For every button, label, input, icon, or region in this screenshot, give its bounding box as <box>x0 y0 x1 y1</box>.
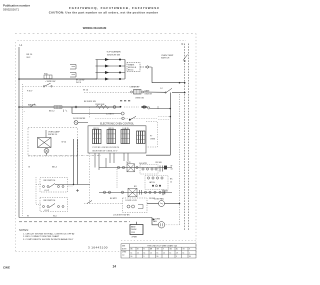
motor M2 oven fan <box>158 222 164 228</box>
wire chassis long dash <box>19 221 130 223</box>
svg-text:N: N <box>182 43 184 46</box>
svg-text:16: 16 <box>157 252 159 254</box>
title block column labels <box>131 249 191 259</box>
wire lock to fan <box>147 203 159 205</box>
svg-text:BK W R BR OR Y GN BL GY V: BK W R BR OR Y GN BL GY V <box>93 151 119 153</box>
wire dashed alternate bus vertical <box>22 84 24 216</box>
wire branch corner down <box>71 107 73 114</box>
relay K2 in EOC <box>107 128 116 144</box>
wire lead to SW1 <box>36 184 42 186</box>
wire ignitor to switch <box>84 91 131 93</box>
surface ignitor switch row 4 <box>96 78 126 81</box>
wire transformer lead <box>136 222 138 225</box>
connector block CN2 two-row <box>145 176 168 190</box>
wire lead to SW2 <box>36 204 42 206</box>
switch S3 oven <box>166 88 172 92</box>
wire SW1 to right dashed <box>68 185 74 187</box>
svg-text:V: V <box>189 249 190 251</box>
wire dotted pair right <box>158 116 170 118</box>
switch S4 on oven feed <box>30 104 35 107</box>
svg-text:P1 P2 N1 L1 N2 K1 K2 K3 P4 P: P1 P2 N1 L1 N2 K1 K2 K3 P4 P6 <box>93 147 119 149</box>
connector circle control line <box>122 117 125 120</box>
svg-text:OVEN: OVEN <box>150 139 156 141</box>
wire L1 bus vertical <box>18 47 20 218</box>
infinite switch SW2 box <box>40 198 68 213</box>
wire relay row 1 <box>99 167 172 169</box>
node junction lamp return <box>73 184 74 185</box>
connector pins bracket row1 <box>160 166 163 172</box>
switch S1 on neutral bus <box>183 55 188 61</box>
wire lamp return horizontal <box>55 184 90 186</box>
connector marks P1 <box>64 110 68 113</box>
svg-text:BL: BL <box>176 249 178 251</box>
svg-text:OVEN IGN: OVEN IGN <box>95 104 105 106</box>
svg-text:90: 90 <box>189 256 191 258</box>
svg-text:NOTE: NOTE <box>122 249 126 251</box>
transformer T1 box <box>130 225 143 235</box>
wire door lock dashed line <box>84 203 123 205</box>
heater element E2 hatched box row3 <box>128 188 137 197</box>
dark arrow mark <box>153 218 156 220</box>
resistor R1 hatched <box>54 106 62 109</box>
wire lamp return vertical 1 <box>73 139 75 185</box>
wire dashed drop from oven feed <box>89 107 91 119</box>
switch S5 control <box>131 116 137 119</box>
svg-text:1-3: 1-3 <box>122 255 124 257</box>
wire neutral bus dashed vertical <box>184 44 186 231</box>
wire dashed oven feed continues <box>124 106 139 108</box>
svg-text:14: 14 <box>170 252 172 254</box>
svg-text:+ IGNITOR: + IGNITOR <box>130 87 140 89</box>
svg-text:BK 12: BK 12 <box>49 111 55 113</box>
svg-text:14: 14 <box>163 252 165 254</box>
svg-text:14: 14 <box>144 252 146 254</box>
wire dash-dot lamp bottom <box>28 155 102 157</box>
wire right oven feed <box>150 108 170 110</box>
svg-text:18: 18 <box>176 252 178 254</box>
surface ignitor switch row 3 <box>96 71 126 74</box>
svg-text:XFMR: XFMR <box>132 236 138 238</box>
node junction dotted right <box>170 116 172 118</box>
svg-text:SEE: SEE <box>122 246 125 248</box>
node dark mark on oven feed <box>120 106 122 108</box>
relay K3 in EOC <box>121 128 130 144</box>
connector group row3 <box>144 190 164 196</box>
svg-text:14: 14 <box>183 252 185 254</box>
connector diamond on spark output <box>146 66 150 69</box>
relay K5 lamp relay with X <box>38 138 52 148</box>
diagram sheet dashed border bottom left part <box>16 251 122 253</box>
svg-text:5995202671: 5995202671 <box>3 7 19 11</box>
wire second feed horizontal <box>72 113 121 115</box>
connector cross mark <box>76 189 79 192</box>
svg-text:14: 14 <box>113 265 117 269</box>
diagram sheet dashed border left <box>15 42 17 251</box>
svg-text:DOOR LOCK: DOOR LOCK <box>126 200 138 202</box>
svg-text:INF SWITCH: INF SWITCH <box>44 200 56 202</box>
svg-text:BK SURF SW: BK SURF SW <box>84 101 96 103</box>
svg-text:CHRT: CHRT <box>122 252 126 254</box>
diagram sheet dashed inner top line <box>18 40 187 42</box>
node junction L1 feed <box>18 78 20 80</box>
wire right loop vertical <box>169 93 171 156</box>
resistor R2 zigzag on oven feed <box>96 105 109 108</box>
svg-text:14: 14 <box>171 168 173 170</box>
svg-text:LOCK MTR SW BR: LOCK MTR SW BR <box>113 215 130 217</box>
connector circle on oven feed <box>113 106 116 109</box>
wire dotted fan to L2 <box>165 224 180 226</box>
wire dashed sensor loop <box>146 122 158 148</box>
svg-text:FAN: FAN <box>153 220 157 223</box>
connector circle after triangles <box>148 107 150 109</box>
oven ignitor IG1 box <box>134 90 142 95</box>
svg-text:3. COMPONENTS SHOWN IN WHITE A: 3. COMPONENTS SHOWN IN WHITE AREA ONLY <box>23 238 74 241</box>
svg-text:FGF379WECQ, FGF379WECB, FGF379: FGF379WECQ, FGF379WECB, FGF379WESC <box>69 6 160 10</box>
svg-text:GN: GN <box>170 249 172 251</box>
svg-text:3 16443100: 3 16443100 <box>88 246 108 250</box>
infinite switch SW1 box <box>40 178 68 193</box>
op-amp EOC box U1 <box>88 126 146 153</box>
connector circle ignitor right <box>142 91 144 93</box>
heater element E1 hatched box row1 <box>127 164 135 172</box>
svg-text:2. REV CONNECTORS PER CHART: 2. REV CONNECTORS PER CHART <box>23 235 60 238</box>
svg-text:DLB MTR: DLB MTR <box>139 163 148 165</box>
connector circle ignitor left <box>131 91 133 93</box>
connector bracket J2 <box>70 73 76 78</box>
diagram sheet dashed border top <box>15 33 196 35</box>
svg-text:12: 12 <box>170 181 172 183</box>
connector bracket J1 <box>70 65 76 70</box>
coupling marks row3 <box>140 190 142 195</box>
connector circles row 3 <box>103 191 105 193</box>
svg-text:90: 90 <box>157 256 159 258</box>
wire switch to neutral <box>172 92 185 94</box>
connector circle row1 end <box>164 166 167 170</box>
wire lamp return vertical 2 <box>77 139 79 185</box>
svg-text:IGNITOR: IGNITOR <box>145 93 153 95</box>
svg-text:1. CIRCUIT SHOWN WITH ALL CONT: 1. CIRCUIT SHOWN WITH ALL CONTROLS OFF A… <box>23 232 75 235</box>
motor M1 convection fan <box>159 201 165 207</box>
wire spark module output <box>140 66 152 68</box>
wire oven feed horizontal <box>19 106 121 108</box>
diagram sheet dashed border right <box>195 34 197 259</box>
wire dashed drop to lock row <box>89 153 91 204</box>
svg-text:14: 14 <box>150 252 152 254</box>
svg-text:THE LINE VOLT WIRE CHART GA: THE LINE VOLT WIRE CHART GA <box>147 245 177 248</box>
node junction neutral 2 <box>184 92 186 94</box>
svg-text:+ SURF SW: + SURF SW <box>45 81 56 83</box>
wire L2 dashed vertical <box>179 94 181 225</box>
svg-text:CONV FAN: CONV FAN <box>154 197 164 200</box>
wire bottom bus horizontal <box>19 217 152 219</box>
svg-text:MODULE: MODULE <box>128 67 137 69</box>
lamp LP1 <box>44 148 49 153</box>
svg-text:BK: BK <box>131 249 133 251</box>
svg-text:SW BK 14: SW BK 14 <box>48 134 58 136</box>
node dark mark control line <box>129 119 131 121</box>
svg-text:BK-4: BK-4 <box>52 166 58 168</box>
wire bus drop to oven fan <box>152 218 159 225</box>
node junction right loop top <box>170 108 172 110</box>
connector circle second feed <box>121 112 124 115</box>
title block table <box>121 244 196 258</box>
relay K1 in EOC <box>93 128 102 144</box>
svg-text:CWE: CWE <box>3 266 10 270</box>
spark module SM1 <box>127 63 140 72</box>
svg-text:90: 90 <box>131 256 133 258</box>
infinite switch feed dashed vertical <box>35 177 37 205</box>
wire door switch to EOC <box>78 122 88 124</box>
node junction on L2 <box>179 82 181 84</box>
svg-text:P 30 V: P 30 V <box>27 91 33 93</box>
svg-text:W-2 B: W-2 B <box>76 82 82 84</box>
svg-text:BK MTR: BK MTR <box>110 198 117 200</box>
connector block CN1 row1 <box>140 165 158 175</box>
connector circle row3 a <box>121 191 123 193</box>
wire dotted control line <box>95 118 157 120</box>
svg-text:W: W <box>171 166 173 168</box>
wire EOC pin drops <box>95 153 128 170</box>
surface ignitor switch row 1 <box>96 58 126 61</box>
svg-text:P7: P7 <box>150 136 152 138</box>
node junction fan L2 <box>179 203 181 205</box>
svg-text:BR 14: BR 14 <box>128 70 133 72</box>
svg-text:W 14: W 14 <box>83 90 89 92</box>
svg-text:ELECTRONIC OVEN CONTROL: ELECTRONIC OVEN CONTROL <box>100 124 135 126</box>
connector double triangle <box>141 106 148 109</box>
connector circle row1 b <box>136 166 138 168</box>
door lock motor box dashed <box>123 198 148 213</box>
svg-text:14: 14 <box>131 252 133 254</box>
wire relay row 3 <box>99 191 172 193</box>
wire main feed horizontal <box>19 78 97 80</box>
svg-text:GY: GY <box>183 249 185 251</box>
svg-text:INF SWITCH: INF SWITCH <box>44 180 56 182</box>
oven lamp assembly dashed box <box>28 128 78 157</box>
wire ground bus dashed vertical <box>188 44 190 231</box>
connector dark marks above EOC <box>120 100 130 102</box>
door switch DS1 circle <box>74 121 78 125</box>
diagram sheet dashed line above title block <box>121 240 196 242</box>
wire vertical link rows <box>116 169 118 188</box>
svg-text:MTR: MTR <box>127 162 132 164</box>
wire EOC right link <box>146 154 170 156</box>
switch S2 door <box>43 86 45 88</box>
svg-text:IGNITOR SW: IGNITOR SW <box>107 54 121 56</box>
svg-text:12: 12 <box>137 252 139 254</box>
wire ignitor switch left bus <box>96 60 98 80</box>
svg-text:L1 H P: L1 H P <box>44 190 50 192</box>
tick junction on oven feed <box>157 106 159 109</box>
svg-text:DOOR SW BK: DOOR SW BK <box>73 118 86 120</box>
wire dashed branch horizontal <box>23 85 141 87</box>
wire spark return vertical <box>151 67 153 83</box>
wire fan to L2 <box>165 203 180 205</box>
svg-text:RD WH: RD WH <box>156 162 163 164</box>
svg-text:TOP BURNER: TOP BURNER <box>106 52 121 54</box>
svg-text:1-2: 1-2 <box>160 88 163 90</box>
svg-text:NOTES:: NOTES: <box>19 228 29 232</box>
svg-text:Y: Y <box>163 249 164 251</box>
svg-text:WIRING DIAGRAM: WIRING DIAGRAM <box>83 26 107 30</box>
wire ignitor switch right bus <box>124 60 126 80</box>
relay K4 in EOC <box>137 131 146 144</box>
switch S6 on lock line <box>87 201 92 204</box>
connector circles row 1 <box>117 166 119 168</box>
connector circle on oven feed branch <box>75 106 77 108</box>
wire spark return horizontal to neutral <box>152 82 185 84</box>
svg-text:CAUTION: Use the part number o: CAUTION: Use the part number on all orde… <box>49 10 159 14</box>
node junction L1 oven feed <box>18 106 20 108</box>
node junction on neutral <box>184 82 186 84</box>
svg-text:LATCH: LATCH <box>149 181 155 184</box>
svg-text:L1 H P: L1 H P <box>44 210 50 212</box>
fuse F1 on feed line <box>44 75 52 79</box>
svg-text:SWITCH: SWITCH <box>161 58 170 60</box>
surface ignitor switch row 2 <box>96 65 126 68</box>
svg-text:OVEN IGN: OVEN IGN <box>135 97 144 99</box>
